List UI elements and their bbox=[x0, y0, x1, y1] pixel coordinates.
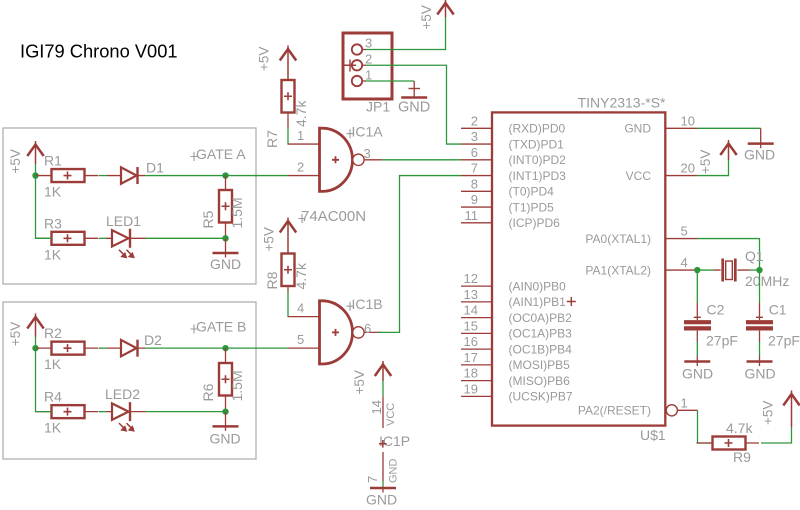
svg-text:2: 2 bbox=[471, 113, 478, 128]
wire JP1 pin 2 to U$1 pin 3 bbox=[366, 65, 461, 144]
LED LED2 bbox=[106, 411, 146, 413]
svg-text:6: 6 bbox=[364, 321, 371, 336]
wire JP1 pin 3 to +5V bbox=[366, 17, 446, 50]
supply +5V (gate B) bbox=[35, 314, 37, 337]
svg-text:+5V: +5V bbox=[257, 47, 272, 71]
wire IC1P pin 7 to ground bbox=[382, 481, 384, 488]
svg-text:JP1: JP1 bbox=[366, 99, 390, 115]
svg-text:+5V: +5V bbox=[8, 322, 23, 346]
svg-text:14: 14 bbox=[369, 400, 384, 414]
resistor R8 bottom lead bbox=[287, 286, 289, 293]
svg-text:1.5M: 1.5M bbox=[229, 197, 245, 228]
svg-text:4.7k: 4.7k bbox=[726, 420, 753, 436]
resistor 4.7k bbox=[713, 437, 746, 450]
svg-text:R5: R5 bbox=[200, 210, 216, 228]
svg-text:4: 4 bbox=[681, 255, 688, 270]
resistor R4 bbox=[52, 405, 85, 418]
svg-text:(AIN0)PB0: (AIN0)PB0 bbox=[509, 279, 567, 293]
node R5 bottom bbox=[222, 235, 228, 241]
svg-text:5: 5 bbox=[297, 332, 304, 347]
svg-text:(INT0)PD2: (INT0)PD2 bbox=[509, 153, 567, 167]
supply +5V (VCC pin 20) bbox=[728, 140, 730, 160]
svg-text:12: 12 bbox=[464, 271, 478, 286]
wire R8 to IC1B pin 4 bbox=[287, 293, 289, 317]
svg-text:13: 13 bbox=[464, 287, 478, 302]
svg-text:PA1(XTAL2): PA1(XTAL2) bbox=[585, 263, 651, 277]
svg-text:D1: D1 bbox=[146, 160, 164, 176]
svg-text:R1: R1 bbox=[44, 153, 62, 169]
svg-text:R9: R9 bbox=[733, 449, 751, 465]
svg-text:4.7k: 4.7k bbox=[293, 262, 309, 289]
frame GATE B section bbox=[3, 302, 256, 459]
svg-text:GND: GND bbox=[210, 256, 241, 272]
svg-text:8: 8 bbox=[471, 176, 478, 191]
wire R9 to +5V bbox=[761, 427, 792, 443]
wire C1 to ground bbox=[759, 342, 761, 357]
NAND gate IC1A bbox=[288, 144, 320, 176]
svg-text:U$1: U$1 bbox=[640, 427, 666, 443]
svg-text:GND: GND bbox=[745, 366, 776, 382]
node gate A output bbox=[222, 172, 228, 178]
svg-text:VCC: VCC bbox=[626, 169, 652, 183]
capacitor C2 bbox=[696, 303, 698, 320]
svg-text:16: 16 bbox=[464, 334, 478, 349]
wire LED2 to R6 node bbox=[146, 411, 226, 413]
svg-text:20MHz: 20MHz bbox=[745, 273, 789, 289]
wire R2 to D2 bbox=[99, 347, 108, 349]
diode D2 bbox=[107, 347, 145, 349]
resistor R5 leads bbox=[225, 176, 227, 239]
wire U$1 pin 20 to +5V bbox=[697, 160, 729, 176]
svg-text:3: 3 bbox=[364, 146, 371, 161]
svg-text:27pF: 27pF bbox=[768, 333, 800, 349]
crystal Q1 bbox=[714, 269, 750, 271]
svg-text:LED1: LED1 bbox=[106, 213, 141, 229]
svg-text:(TXD)PD1: (TXD)PD1 bbox=[509, 137, 565, 151]
capacitor C1 bbox=[759, 303, 761, 320]
wire +5V branch down to R3 bbox=[36, 176, 52, 239]
wire U$1 pin 10 to ground bbox=[697, 127, 761, 129]
U$1 left pin stubs bbox=[461, 128, 492, 396]
resistor R7 bbox=[282, 80, 295, 113]
wire R3 to LED1 bbox=[99, 237, 107, 239]
svg-text:7: 7 bbox=[471, 161, 478, 176]
svg-text:1K: 1K bbox=[44, 420, 62, 436]
supply +5V (R7) bbox=[287, 46, 289, 81]
supply +5V (JP1) bbox=[445, 0, 447, 17]
svg-text:IGI79 Chrono V001: IGI79 Chrono V001 bbox=[20, 41, 178, 62]
svg-text:GATE A: GATE A bbox=[196, 146, 246, 162]
junction gate B +5V bbox=[32, 345, 38, 351]
svg-text:+5V: +5V bbox=[261, 227, 276, 251]
svg-text:+5V: +5V bbox=[8, 149, 23, 173]
wire U$1 pin 1 (PA2) down to R9 bbox=[698, 410, 713, 443]
wire +5V to R1 node bbox=[35, 164, 37, 176]
svg-text:1K: 1K bbox=[44, 356, 62, 372]
svg-text:(MISO)PB6: (MISO)PB6 bbox=[509, 374, 571, 388]
resistor R6 leads bbox=[225, 348, 227, 412]
svg-text:R8: R8 bbox=[264, 271, 280, 289]
ground (pin 10) bbox=[760, 128, 762, 148]
frame GATE A section bbox=[3, 128, 256, 284]
wire +5V to R2 node bbox=[35, 337, 37, 349]
wire crystal right node down to C1 bbox=[759, 270, 761, 303]
svg-text:1K: 1K bbox=[44, 184, 62, 200]
svg-text:3: 3 bbox=[365, 36, 372, 51]
svg-text:11: 11 bbox=[465, 208, 479, 223]
svg-text:(INT1)PD3: (INT1)PD3 bbox=[509, 169, 567, 183]
node crystal right bbox=[756, 267, 762, 273]
resistor R3 bbox=[52, 232, 85, 245]
wire crystal to right node bbox=[750, 269, 760, 271]
svg-text:PA2(/RESET): PA2(/RESET) bbox=[578, 404, 651, 418]
svg-text:3: 3 bbox=[471, 129, 478, 144]
wire D2 to gate B node bbox=[145, 347, 226, 349]
svg-text:R3: R3 bbox=[44, 215, 62, 231]
U$1 left pin numbers bbox=[464, 113, 478, 396]
supply +5V (R9) bbox=[791, 391, 793, 428]
power pins symbol IC1P bbox=[382, 396, 384, 428]
svg-text:GND: GND bbox=[744, 147, 775, 163]
ground (C2) bbox=[696, 357, 698, 367]
svg-text:IC1A: IC1A bbox=[352, 123, 384, 139]
svg-text:17: 17 bbox=[464, 350, 478, 365]
wire LED1 to R5 node bbox=[146, 237, 226, 239]
ground (IC1P) bbox=[382, 488, 384, 493]
supply +5V (IC1P) bbox=[382, 361, 384, 381]
svg-text:VCC: VCC bbox=[385, 403, 397, 426]
svg-text:GND: GND bbox=[366, 492, 397, 508]
svg-text:(ICP)PD6: (ICP)PD6 bbox=[509, 216, 561, 230]
svg-text:1: 1 bbox=[365, 68, 372, 83]
wire IC1B output to U$1 pin 7 bbox=[378, 176, 461, 333]
svg-text:IC1P: IC1P bbox=[379, 433, 410, 449]
wire +5V to IC1P pin 14 bbox=[382, 381, 384, 396]
wire D1 to gate A node bbox=[145, 175, 226, 177]
svg-text:GND: GND bbox=[624, 122, 651, 136]
diode D1 bbox=[107, 175, 145, 177]
svg-text:LED2: LED2 bbox=[105, 386, 140, 402]
wire gate A node to IC1A pin 2 bbox=[226, 175, 288, 177]
wire JP1 pin 1 to ground bbox=[366, 80, 414, 82]
node crystal left bbox=[694, 267, 700, 273]
svg-text:R6: R6 bbox=[200, 383, 216, 401]
svg-text:6: 6 bbox=[471, 145, 478, 160]
svg-text:1.5M: 1.5M bbox=[229, 370, 245, 401]
svg-text:R4: R4 bbox=[44, 389, 62, 405]
resistor R8 bbox=[282, 254, 295, 287]
svg-text:IC1B: IC1B bbox=[352, 296, 383, 312]
wire R4 to LED2 bbox=[99, 411, 107, 413]
wire R7 to IC1A pin 1 bbox=[287, 128, 289, 144]
node gate B output bbox=[222, 345, 228, 351]
svg-text:27pF: 27pF bbox=[706, 333, 738, 349]
wire crystal left node down to C2 bbox=[696, 270, 698, 303]
U$1 PA2 inversion bubble bbox=[666, 405, 677, 416]
svg-text:1K: 1K bbox=[44, 246, 62, 262]
svg-text:9: 9 bbox=[471, 192, 478, 207]
resistor R7 bottom lead bbox=[287, 113, 289, 129]
svg-text:(RXD)PD0: (RXD)PD0 bbox=[509, 122, 566, 136]
wire +5V branch down to R4 bbox=[36, 348, 52, 412]
ground (gate A) bbox=[225, 238, 227, 257]
svg-text:+5V: +5V bbox=[761, 401, 776, 425]
supply +5V (R8) bbox=[287, 218, 289, 254]
svg-text:GND: GND bbox=[682, 366, 713, 382]
svg-text:GND: GND bbox=[387, 459, 399, 484]
svg-text:C1: C1 bbox=[769, 302, 787, 318]
svg-text:D2: D2 bbox=[144, 332, 162, 348]
svg-text:(OC0A)PB2: (OC0A)PB2 bbox=[509, 311, 573, 325]
svg-text:(T1)PD5: (T1)PD5 bbox=[509, 200, 555, 214]
resistor R2 bbox=[52, 342, 85, 355]
U$1 right pin names bbox=[578, 122, 651, 418]
svg-text:PA0(XTAL1): PA0(XTAL1) bbox=[585, 232, 651, 246]
svg-text:GND: GND bbox=[398, 100, 430, 116]
svg-text:10: 10 bbox=[681, 113, 695, 128]
node R6 bottom bbox=[222, 408, 228, 414]
svg-text:R7: R7 bbox=[264, 130, 280, 148]
svg-text:C2: C2 bbox=[707, 302, 725, 318]
wire gate B node to IC1B pin 5 bbox=[226, 347, 288, 349]
svg-text:+5V: +5V bbox=[352, 370, 367, 394]
svg-text:2: 2 bbox=[365, 52, 372, 67]
ground (gate B) bbox=[225, 412, 227, 431]
svg-text:(MOSI)PB5: (MOSI)PB5 bbox=[509, 358, 571, 372]
svg-text:+5V: +5V bbox=[419, 5, 434, 29]
wire IC1A output to U$1 pin 6 bbox=[382, 159, 461, 161]
svg-text:5: 5 bbox=[681, 224, 688, 239]
connector JP1 bbox=[343, 33, 392, 99]
svg-text:GATE B: GATE B bbox=[196, 319, 246, 335]
U$1 right pin stubs bbox=[665, 128, 697, 410]
svg-text:15: 15 bbox=[464, 318, 478, 333]
svg-text:1: 1 bbox=[681, 395, 688, 410]
svg-text:Q1: Q1 bbox=[745, 248, 764, 264]
svg-text:14: 14 bbox=[464, 303, 478, 318]
U$1 right pin numbers bbox=[681, 113, 695, 410]
junction gate A +5V bbox=[32, 172, 38, 178]
resistor R6 bbox=[219, 363, 232, 396]
ground (JP1) bbox=[413, 81, 415, 98]
wire R1 to D1 bbox=[99, 175, 108, 177]
U$1 left pin names bbox=[509, 122, 573, 404]
svg-text:TINY2313-*S*: TINY2313-*S* bbox=[578, 95, 666, 111]
svg-text:74AC00N: 74AC00N bbox=[301, 208, 366, 225]
svg-text:7: 7 bbox=[365, 476, 380, 483]
svg-text:R2: R2 bbox=[44, 325, 62, 341]
svg-text:+5V: +5V bbox=[698, 150, 713, 174]
ground (C1) bbox=[759, 357, 761, 367]
supply +5V (gate A) bbox=[35, 141, 37, 164]
LED LED1 bbox=[106, 237, 146, 239]
svg-text:(OC1B)PB4: (OC1B)PB4 bbox=[509, 342, 573, 356]
svg-text:(AIN1)PB1: (AIN1)PB1 bbox=[509, 295, 567, 309]
svg-text:GND: GND bbox=[210, 431, 241, 447]
svg-text:20: 20 bbox=[681, 161, 695, 176]
svg-text:4.7k: 4.7k bbox=[293, 100, 309, 127]
svg-text:4: 4 bbox=[297, 300, 304, 315]
svg-text:2: 2 bbox=[297, 159, 304, 174]
wire U$1 pin 5 to crystal right node bbox=[697, 239, 760, 270]
svg-text:18: 18 bbox=[464, 366, 478, 381]
svg-text:19: 19 bbox=[464, 381, 478, 396]
wire pin4 node to crystal bbox=[697, 269, 714, 271]
NAND gate IC1B bbox=[288, 317, 320, 349]
resistor R1 bbox=[52, 169, 85, 182]
svg-text:(UCSK)PB7: (UCSK)PB7 bbox=[509, 390, 573, 404]
resistor R5 bbox=[219, 190, 232, 223]
wire C2 to ground bbox=[696, 342, 698, 357]
svg-text:1: 1 bbox=[297, 128, 304, 143]
IC U$1 TINY2313 body bbox=[492, 112, 665, 425]
svg-text:(OC1A)PB3: (OC1A)PB3 bbox=[509, 327, 573, 341]
svg-text:(T0)PD4: (T0)PD4 bbox=[509, 185, 555, 199]
